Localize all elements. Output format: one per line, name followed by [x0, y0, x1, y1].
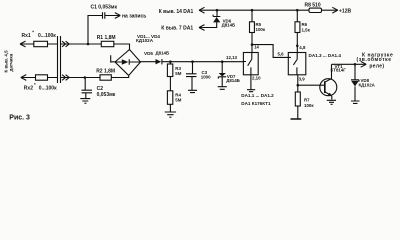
arrow top-left input: [20, 41, 26, 47]
svg-text:5М: 5М: [175, 98, 181, 103]
label +12V: [339, 8, 351, 14]
label VD6 D814B: [222, 18, 236, 27]
bridge internal diode: [116, 59, 141, 65]
node jog: [251, 43, 254, 46]
switch DA1.2 contacts: [288, 53, 297, 75]
wire R1 to bridge top: [88, 44, 130, 50]
emitter arrow: [328, 93, 332, 96]
svg-text:0...100к: 0...100к: [39, 85, 57, 91]
node above DA1.2: [296, 45, 299, 48]
arrow to pin 14: [199, 7, 205, 13]
node VD7: [221, 60, 224, 63]
svg-text:1,5к: 1,5к: [302, 27, 311, 32]
label 5,6: [278, 51, 285, 56]
label R3 5M: [175, 66, 181, 76]
label R6 1,5k: [302, 22, 311, 32]
resistor R4: [167, 91, 172, 105]
capacitor C3: [186, 62, 197, 91]
wire base: [298, 84, 325, 86]
ground C3: [188, 90, 197, 92]
resistor R7: [297, 85, 299, 92]
label pins 12,13: [226, 55, 238, 60]
node VD8: [354, 63, 357, 66]
node C3: [191, 60, 194, 63]
node R5 top: [251, 9, 254, 12]
arrow +12V: [332, 7, 338, 13]
label C3 1000: [201, 70, 211, 80]
label R8 510: [305, 3, 321, 9]
resistor Rx2: [36, 75, 48, 80]
svg-text:на запись: на запись: [122, 13, 146, 19]
label DA1.3 ... DA1.4: [309, 53, 342, 58]
label R1 1,8M: [97, 35, 116, 41]
resistor R3: [169, 62, 171, 64]
zener VD6: [213, 10, 220, 16]
label 2,10: [252, 76, 261, 81]
svg-text:+12В: +12В: [339, 8, 351, 14]
zener VD8: [351, 64, 359, 81]
svg-text:Д814Б: Д814Б: [222, 23, 236, 28]
svg-text:КТ814Г: КТ814Г: [331, 68, 347, 73]
svg-text:КД102А: КД102А: [359, 83, 376, 88]
switch DA1.2 box: [288, 53, 306, 75]
label pin 14 small: [254, 45, 259, 50]
svg-text:0...100к: 0...100к: [38, 33, 56, 39]
ground VD8: [351, 101, 360, 103]
node R6 top: [296, 9, 299, 12]
label K vyv 14 DA1: [159, 9, 194, 15]
svg-text:100к: 100к: [256, 27, 266, 32]
bar left of bridge: [111, 55, 115, 62]
ground C2: [80, 99, 90, 104]
svg-text:3,9: 3,9: [299, 77, 306, 82]
collector wire: [332, 63, 367, 65]
label K vyv 7 DA1: [161, 25, 193, 31]
resistor R8: [309, 8, 322, 12]
label VD5 D814B: [144, 51, 169, 56]
ground R4: [165, 112, 176, 117]
label R5 100k: [256, 22, 266, 32]
wire DA1.2 out: [297, 75, 299, 85]
switch DA1.1 contacts: [243, 53, 252, 75]
label Rx1* 0...100k: [22, 30, 57, 40]
label 4,8: [299, 45, 306, 50]
label C2 0,053mk: [97, 86, 116, 98]
svg-text:4,8: 4,8: [299, 45, 306, 50]
wire lower-left input: [21, 77, 57, 79]
svg-text:КД102А: КД102А: [136, 38, 154, 43]
ground DA1.1 output: [247, 75, 255, 92]
capacitor C2: [82, 78, 93, 99]
svg-text:12,13: 12,13: [226, 55, 238, 60]
svg-text:К выв. 7 DA1: К выв. 7 DA1: [161, 25, 193, 31]
svg-text:реле): реле): [369, 63, 384, 69]
top rail: [199, 9, 309, 11]
resistor R2: [100, 75, 111, 80]
svg-text:Д814Б: Д814Б: [156, 51, 170, 56]
chevrons top wire: [61, 41, 89, 47]
svg-text:2,10: 2,10: [252, 76, 261, 81]
wire jog to DA1.2: [252, 45, 288, 58]
svg-text:Rx1: Rx1: [22, 33, 31, 39]
bridge VD1...VD4: [115, 50, 141, 76]
label C1 0,053mk: [91, 4, 118, 10]
connector plane X1: [58, 36, 61, 83]
svg-text:5М: 5М: [175, 71, 181, 76]
ground VD7: [218, 87, 227, 90]
svg-text:14: 14: [254, 45, 259, 50]
arrow na zapis: [115, 13, 121, 19]
svg-text:R7: R7: [304, 98, 310, 103]
node VD6: [216, 9, 219, 12]
svg-text:Rx2: Rx2: [24, 85, 33, 91]
label K nagruzke: [357, 52, 394, 69]
ground R7: [291, 118, 302, 120]
label Rx2* 0...100k: [24, 82, 57, 92]
wire C1 branch: [88, 16, 102, 45]
svg-text:DA1 К176КТ1: DA1 К176КТ1: [241, 101, 271, 106]
label R7 100k: [304, 98, 314, 109]
svg-text:1000: 1000: [201, 75, 211, 80]
resistor R1: [101, 41, 114, 46]
switch DA1.1 box: [243, 53, 258, 75]
resistor R6: [296, 10, 298, 22]
label VD7 D814B: [226, 74, 240, 83]
label R2 1,8M: [96, 69, 115, 75]
node C2 tap: [84, 76, 87, 79]
label VD8 KD102A: [359, 78, 376, 87]
svg-text:R1 1,8М: R1 1,8М: [97, 35, 116, 41]
mid wire: [141, 61, 244, 63]
svg-text:датчика: датчика: [9, 53, 14, 71]
diode VD5: [156, 59, 162, 64]
svg-text:*: *: [34, 82, 36, 87]
svg-text:R8 510: R8 510: [305, 3, 321, 9]
svg-text:К выв. 14 DA1: К выв. 14 DA1: [159, 9, 194, 15]
label VD1...VD4 KD102A: [136, 34, 160, 43]
arrow to load: [361, 61, 367, 67]
svg-text:Рис. 3: Рис. 3: [9, 115, 30, 122]
label 3,9: [299, 77, 306, 82]
svg-text:VD5: VD5: [144, 51, 153, 56]
svg-text:DA1.3 ... DA1.4: DA1.3 ... DA1.4: [309, 53, 342, 58]
svg-text:5,6: 5,6: [278, 51, 285, 56]
resistor R5: [251, 10, 253, 22]
resistor Rx1: [34, 41, 48, 46]
svg-text:*: *: [32, 30, 34, 35]
capacitor C1: [103, 12, 121, 18]
node C1 tap: [87, 43, 90, 46]
label na zapis: [122, 13, 146, 19]
label VT1 KT814G: [331, 64, 347, 73]
svg-text:С1 0,053мк: С1 0,053мк: [91, 4, 118, 10]
wire R2 to bridge bottom: [111, 76, 128, 78]
svg-text:R6: R6: [302, 22, 308, 27]
svg-text:R2 1,8М: R2 1,8М: [96, 69, 115, 75]
label R4 5M: [175, 93, 181, 103]
arrow lower-left input: [21, 75, 27, 81]
node R3: [169, 60, 172, 63]
svg-text:100к: 100к: [304, 103, 314, 108]
rotated label left: [4, 50, 14, 73]
labels DA1 bottom: [241, 93, 274, 106]
ground VT1: [327, 100, 336, 104]
caption Ris. 3: [9, 115, 30, 122]
svg-text:(зв.обмотке: (зв.обмотке: [357, 56, 392, 63]
svg-text:Д814Б: Д814Б: [226, 78, 240, 83]
svg-text:0,053мк: 0,053мк: [97, 92, 116, 98]
arrow to pin 7: [199, 25, 205, 31]
wire top-left input: [21, 43, 58, 45]
chevrons lower wire: [61, 75, 101, 81]
zener VD7: [221, 62, 223, 73]
transistor VT1: [320, 79, 337, 96]
svg-text:DA1.1 ... DA1.2: DA1.1 ... DA1.2: [241, 93, 274, 98]
node base: [297, 84, 300, 87]
